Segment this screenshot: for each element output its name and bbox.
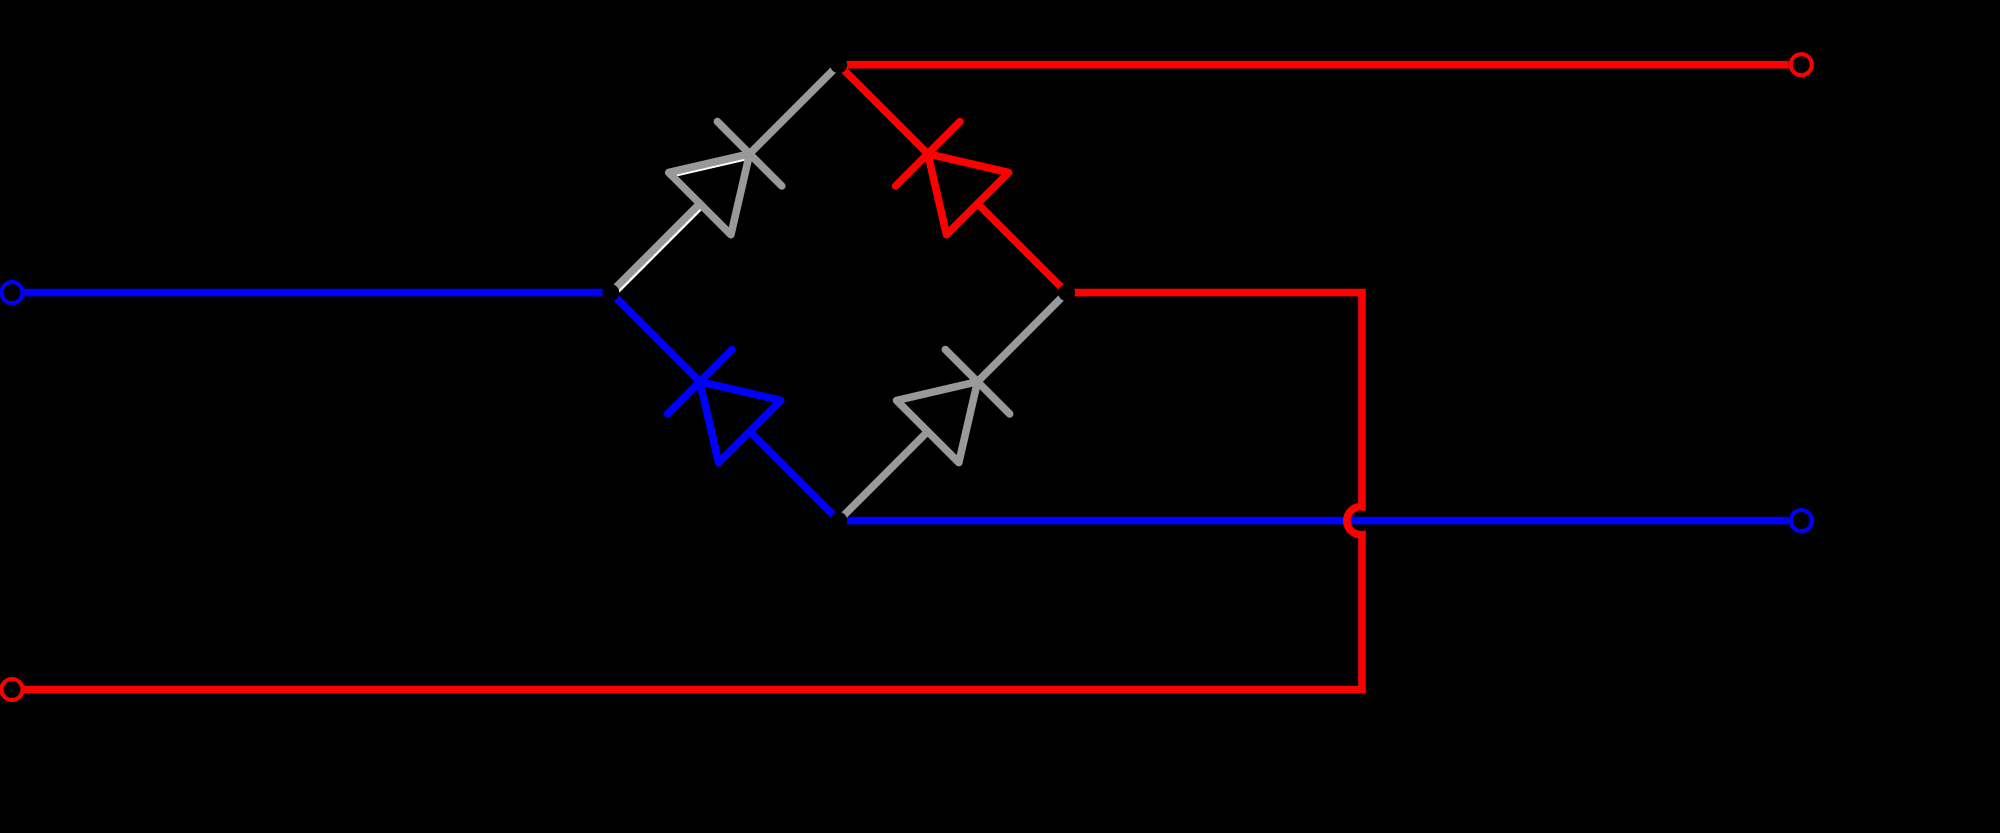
terminal: blue AC input left — [2, 282, 23, 303]
node left (junction dot) — [602, 284, 619, 301]
diode D2 (red, top-right: right node to top node, conducting) — [839, 65, 1067, 293]
wire: red AC path from right bridge node, right, down with hop over blue wire, then bottom rail to left terminal — [24, 293, 1362, 690]
white under-copy of diode D1 (offset ghost) — [612, 155, 751, 294]
diode D1 (gray, top-left: left node to top node) — [611, 65, 839, 293]
terminal: red AC input bottom-left — [2, 679, 23, 700]
wire: red DC+ output from top bridge node to right terminal — [839, 61, 1789, 69]
terminal: red DC+ top-right — [1791, 54, 1812, 75]
node top (junction dot) — [830, 56, 847, 73]
diode D3 (blue, bottom-left: bottom node to left node, conducting) — [611, 293, 839, 521]
terminal: blue DC- right — [1791, 510, 1812, 531]
node right (junction dot) — [1058, 284, 1075, 301]
node bottom (junction dot) — [830, 512, 847, 529]
wire: blue DC- output from bottom bridge node to right terminal — [839, 517, 1789, 525]
diode D4 (gray, bottom-right: bottom node to right node) — [839, 293, 1067, 521]
wire: blue AC input from left terminal to left bridge node — [24, 289, 611, 297]
